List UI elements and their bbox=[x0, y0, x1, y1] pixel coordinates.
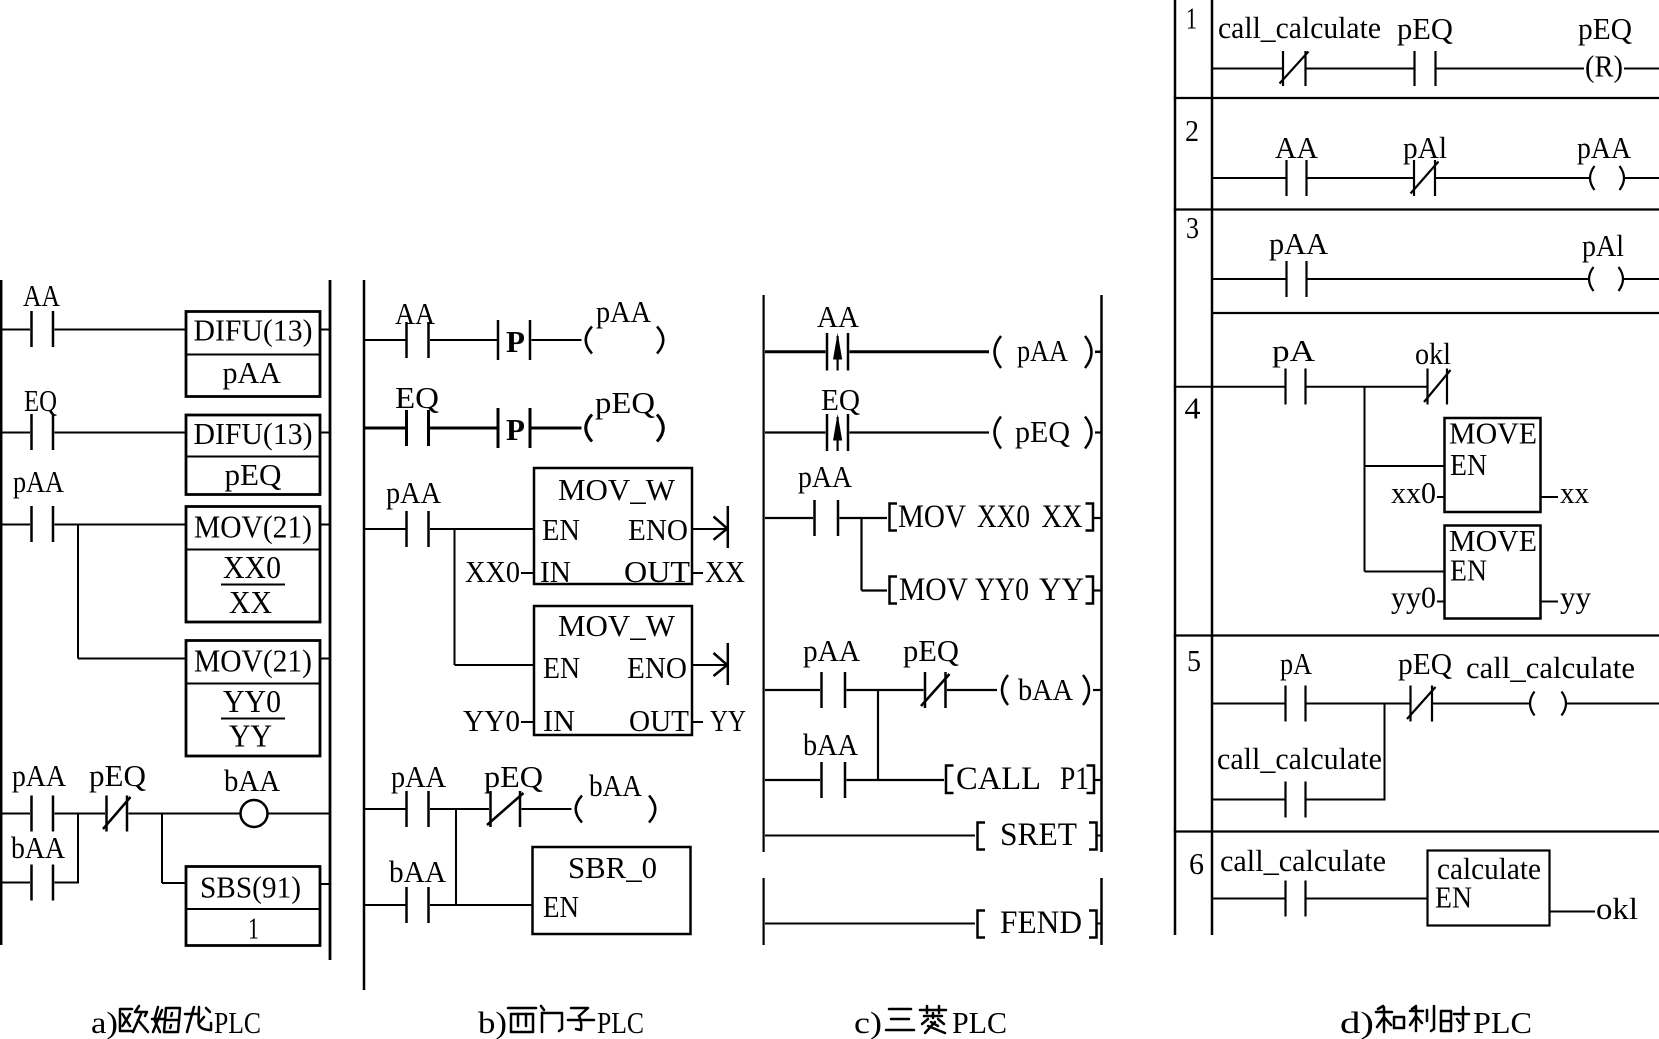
contact bAA (NO) bbox=[407, 887, 429, 923]
box SBR_0 bbox=[533, 847, 691, 934]
contact bAA (NO) bbox=[32, 865, 54, 901]
box calculate bbox=[1428, 851, 1550, 926]
svg-text:EN: EN bbox=[1435, 880, 1472, 915]
svg-text:pA: pA bbox=[1272, 333, 1316, 368]
wire coil pEQ to right rail bbox=[1095, 431, 1102, 433]
svg-text:pAA: pAA bbox=[803, 633, 861, 668]
wire contact pA to contact okl bbox=[1307, 386, 1427, 388]
box MOVE 1 bbox=[1445, 418, 1541, 512]
svg-text:1: 1 bbox=[248, 911, 259, 946]
rung divider 5/6 bbox=[1174, 830, 1659, 832]
wire branch to MOVE box 1 EN bbox=[1365, 465, 1445, 467]
svg-text:ENO: ENO bbox=[627, 650, 687, 685]
svg-text:PLC: PLC bbox=[952, 1005, 1007, 1039]
wire contact pAl to coil pAA bbox=[1436, 177, 1589, 179]
svg-text:YY0: YY0 bbox=[975, 572, 1029, 608]
svg-text:EQ: EQ bbox=[395, 380, 439, 415]
branch vertical pAA/bAA parallel bbox=[455, 809, 457, 905]
contact pAA (NO) bbox=[407, 511, 429, 547]
svg-text:xx: xx bbox=[1560, 475, 1589, 510]
wire rail to contact bAA bbox=[365, 904, 406, 906]
coil call_calculate (parentheses) bbox=[1530, 692, 1566, 716]
contact pEQ (NC) bbox=[921, 672, 950, 708]
caption glyph 利 bbox=[1410, 1006, 1434, 1031]
svg-text:pAA: pAA bbox=[12, 758, 67, 793]
wire contact EQ to P contact bbox=[430, 427, 497, 430]
wire contact AA to coil pAA bbox=[850, 350, 990, 353]
wire rail to SRET instruction bbox=[765, 835, 975, 837]
contact call_calculate (NO) rung 6 bbox=[1286, 881, 1306, 917]
contact pAA (NO) bbox=[407, 791, 429, 827]
wire ENO out rung 3 bbox=[692, 528, 727, 530]
svg-text:xx0: xx0 bbox=[1391, 475, 1436, 510]
contact P (rising edge) rung 1 bbox=[498, 320, 530, 360]
svg-text:okl: okl bbox=[1596, 891, 1638, 926]
wire rail to contact AA bbox=[1, 329, 30, 331]
wire MOV box 2 to right rail bbox=[320, 658, 330, 660]
wire rail to contact pAA bbox=[1, 813, 30, 815]
contact bAA (NO) bbox=[822, 762, 846, 798]
wire rail to contact pAA bbox=[365, 808, 406, 810]
wire xx0 to box bbox=[1437, 496, 1445, 498]
svg-text:pEQ: pEQ bbox=[1015, 414, 1070, 449]
wire SBS box to right rail bbox=[320, 883, 330, 885]
wire rail to contact EQ bbox=[765, 431, 826, 433]
right power rail lower segment (Mitsubishi) bbox=[1100, 878, 1103, 945]
svg-text:pEQ: pEQ bbox=[89, 758, 146, 793]
svg-text:pAA: pAA bbox=[1269, 226, 1329, 261]
left power rail (HollySys) bbox=[1211, 0, 1214, 935]
coil bAA (parentheses) bbox=[576, 796, 656, 823]
wire branch to MOVE box 2 EN bbox=[1365, 571, 1445, 573]
wire cell divider and rail to contact pA bbox=[1174, 386, 1285, 388]
wire rail to contact EQ bbox=[1, 432, 30, 434]
contact okl (NC) bbox=[1424, 369, 1451, 405]
wire DIFU box to right rail bbox=[320, 329, 330, 331]
rung divider 1/2 bbox=[1174, 97, 1659, 99]
svg-text:pEQ: pEQ bbox=[903, 633, 959, 668]
wire coil (R) to right edge bbox=[1624, 68, 1659, 70]
wire contact pAA to MOV box 1 bbox=[55, 524, 187, 526]
svg-text:SBR_0: SBR_0 bbox=[568, 850, 657, 885]
wire rail to contact pAA bbox=[1213, 278, 1286, 280]
svg-text:3: 3 bbox=[1186, 210, 1199, 245]
coil pAA (parentheses) bbox=[1590, 166, 1624, 190]
box MOV_W 2 bbox=[534, 606, 692, 735]
svg-text:c): c) bbox=[854, 1005, 882, 1039]
svg-text:call_calculate: call_calculate bbox=[1218, 10, 1381, 45]
wire contact EQ to DIFU box 2 bbox=[55, 432, 187, 434]
branch vertical pAA/bAA parallel bbox=[877, 690, 879, 780]
contact pEQ (NC) bbox=[103, 796, 131, 832]
svg-text:6: 6 bbox=[1189, 846, 1204, 881]
svg-text:pEQ: pEQ bbox=[1398, 646, 1452, 681]
svg-text:P: P bbox=[506, 324, 525, 359]
svg-text:EN: EN bbox=[542, 512, 580, 547]
contact pA (NO) bbox=[1286, 686, 1306, 722]
wire YY0 to IN bbox=[521, 721, 534, 723]
wire rail to contact call_calculate rung 6 bbox=[1213, 898, 1285, 900]
svg-text:yy0: yy0 bbox=[1391, 580, 1436, 615]
caption glyph 时 bbox=[1441, 1007, 1469, 1031]
contact pEQ (NO) bbox=[1415, 51, 1436, 86]
wire rail to contact call_calculate bbox=[1213, 799, 1285, 801]
wire rail to contact AA bbox=[365, 339, 406, 341]
svg-text:pAA: pAA bbox=[391, 759, 447, 794]
svg-text:EQ: EQ bbox=[821, 382, 860, 417]
box MOV(21) YY0 YY bbox=[186, 641, 320, 757]
wire FEND to right rail bbox=[1098, 923, 1102, 925]
wire contact pEQ to coil bAA bbox=[947, 689, 997, 691]
svg-text:ENO: ENO bbox=[628, 512, 688, 547]
svg-text:yy: yy bbox=[1560, 580, 1592, 615]
svg-text:MOV_W: MOV_W bbox=[558, 472, 676, 507]
wire contact pAA to contact pEQ bbox=[55, 813, 106, 815]
wire P contact to coil pAA bbox=[532, 339, 582, 341]
wire coil pAA to right edge bbox=[1625, 177, 1659, 179]
svg-text:4: 4 bbox=[1185, 391, 1202, 426]
svg-text:YY0: YY0 bbox=[223, 683, 281, 719]
left power rail upper segment (Mitsubishi) bbox=[762, 295, 764, 852]
contact pAA (NO) bbox=[822, 672, 846, 708]
svg-text:MOV: MOV bbox=[899, 572, 968, 608]
svg-text:pA: pA bbox=[1280, 646, 1313, 681]
wire rail to contact pAA bbox=[765, 689, 820, 691]
wire MOV box 1 to right rail bbox=[320, 524, 330, 526]
contact AA (NO) bbox=[32, 311, 54, 347]
svg-text:b): b) bbox=[478, 1005, 507, 1039]
wire MOV to right rail bbox=[1094, 517, 1102, 519]
contact pEQ (NC) bbox=[1407, 686, 1436, 722]
wire P contact to coil pEQ bbox=[532, 427, 582, 430]
right power rail (Omron) bbox=[329, 280, 332, 960]
wire rail to contact pAA bbox=[765, 517, 813, 519]
svg-text:P1: P1 bbox=[1060, 761, 1089, 797]
caption glyph 欧 bbox=[120, 1006, 148, 1032]
caption glyph 姆 bbox=[152, 1007, 180, 1032]
svg-text:PLC: PLC bbox=[214, 1005, 261, 1039]
instruction [MOV XX0 XX] bbox=[890, 499, 1094, 535]
svg-text:XX: XX bbox=[705, 554, 745, 589]
contact call_calculate (NC) bbox=[1280, 51, 1309, 86]
svg-text:EN: EN bbox=[543, 889, 579, 924]
wire box to yy bbox=[1541, 601, 1559, 603]
svg-text:bAA: bAA bbox=[389, 854, 447, 889]
contact pAA (NO) bbox=[32, 506, 54, 542]
instruction [ SRET ] bbox=[978, 817, 1097, 853]
svg-text:CALL: CALL bbox=[956, 761, 1041, 797]
svg-text:XX0: XX0 bbox=[465, 554, 520, 589]
contact pAl (NC) bbox=[1411, 160, 1439, 196]
wire rail to FEND instruction bbox=[765, 923, 975, 925]
svg-text:pAl: pAl bbox=[1582, 228, 1624, 263]
wire coil bAA to right rail bbox=[268, 813, 331, 815]
left power rail (Siemens) bbox=[363, 280, 366, 990]
svg-text:DIFU(13): DIFU(13) bbox=[194, 313, 313, 348]
svg-text:pAA: pAA bbox=[386, 475, 442, 510]
svg-text:pAA: pAA bbox=[1577, 130, 1632, 165]
wire contact AA to contact pAl bbox=[1308, 177, 1414, 179]
contact pAA (NO) bbox=[32, 796, 54, 832]
coil bAA (parentheses) bbox=[1002, 675, 1089, 705]
caption glyph 三 bbox=[886, 1009, 914, 1030]
wire contact pEQ to coil (R) bbox=[1437, 68, 1585, 70]
contact call_calculate (NO) bbox=[1286, 782, 1306, 818]
wire contact pAA to coil pAl bbox=[1308, 278, 1589, 280]
right power rail upper segment (Mitsubishi) bbox=[1100, 295, 1103, 852]
caption glyph 和 bbox=[1376, 1006, 1404, 1032]
svg-text:pEQ: pEQ bbox=[225, 457, 282, 492]
wire contact pAA to contact pEQ bbox=[430, 808, 489, 810]
wire rail to contact bAA bbox=[1, 882, 30, 884]
wire rail to contact EQ bbox=[365, 427, 406, 430]
left power rail lower segment (Mitsubishi) bbox=[762, 878, 764, 945]
rung number column border bbox=[1174, 0, 1177, 935]
svg-text:call_calculate: call_calculate bbox=[1466, 650, 1635, 685]
box MOV(21) XX0 XX bbox=[186, 507, 320, 623]
coil pEQ (parentheses) bbox=[586, 415, 664, 442]
wire contact bAA to CALL instruction bbox=[847, 779, 945, 781]
contact pEQ (NC) bbox=[487, 791, 524, 827]
wire rail to contact call_calculate bbox=[1213, 68, 1282, 70]
svg-text:pAA: pAA bbox=[798, 459, 853, 494]
instruction [MOV YY0 YY] bbox=[890, 572, 1094, 608]
contact P (rising edge) rung 2 bbox=[498, 408, 530, 448]
svg-text:AA: AA bbox=[817, 299, 860, 334]
svg-text:XX0: XX0 bbox=[223, 549, 281, 585]
wire box to xx bbox=[1541, 496, 1559, 498]
svg-text:pEQ: pEQ bbox=[484, 759, 543, 794]
svg-text:YY: YY bbox=[710, 703, 746, 738]
contact EQ (rising edge) bbox=[827, 414, 848, 451]
wire contact pAA to contact pEQ bbox=[847, 689, 924, 691]
svg-text:MOV(21): MOV(21) bbox=[194, 509, 312, 545]
coil pEQ (parentheses) bbox=[995, 417, 1092, 449]
branch vertical to MOV YY0 bbox=[860, 518, 862, 591]
wire ENO out rung 3b bbox=[692, 664, 727, 666]
svg-text:pAl: pAl bbox=[1403, 130, 1447, 165]
coil pAl (parentheses) bbox=[1589, 267, 1623, 291]
svg-text:YY: YY bbox=[1039, 572, 1084, 608]
caption glyph 菱 bbox=[920, 1006, 946, 1033]
svg-text:EQ: EQ bbox=[24, 383, 57, 418]
svg-text:MOV(21): MOV(21) bbox=[194, 643, 312, 679]
caption glyph 龙 bbox=[185, 1007, 211, 1032]
wire contact call_calculate to contact pEQ bbox=[1307, 68, 1414, 70]
contact AA (NO) bbox=[407, 322, 429, 358]
contact pAA (NO) bbox=[815, 500, 839, 536]
box MOVE 2 bbox=[1445, 526, 1541, 619]
wire rail to contact AA bbox=[765, 350, 826, 353]
wire contact pA to contact pEQ bbox=[1307, 703, 1410, 705]
svg-text:a): a) bbox=[91, 1005, 118, 1039]
svg-text:AA: AA bbox=[23, 278, 61, 313]
svg-text:pAA: pAA bbox=[13, 464, 65, 499]
coil pAA (parentheses) bbox=[995, 336, 1092, 368]
svg-text:PLC: PLC bbox=[597, 1005, 644, 1039]
svg-text:pAA: pAA bbox=[223, 355, 282, 390]
wire rail to contact pAA bbox=[1, 524, 30, 526]
svg-text:XX: XX bbox=[1042, 499, 1083, 535]
wire contact call_calculate to calculate box EN bbox=[1307, 898, 1428, 900]
wire contact call_calculate to branch bbox=[1307, 799, 1386, 801]
svg-text:XX: XX bbox=[229, 584, 272, 620]
svg-text:MOV_W: MOV_W bbox=[558, 608, 676, 643]
wire XX0 to IN bbox=[521, 572, 534, 574]
wire yy0 to box bbox=[1437, 601, 1445, 603]
svg-text:EN: EN bbox=[543, 650, 580, 685]
svg-text:bAA: bAA bbox=[11, 830, 66, 865]
branch vertical to MOV_W box 2 bbox=[454, 529, 456, 665]
svg-text:EN: EN bbox=[1450, 553, 1487, 588]
wire contact bAA to SBR box EN bbox=[430, 904, 533, 906]
svg-text:PLC: PLC bbox=[1473, 1005, 1532, 1039]
contact AA (NO) bbox=[1287, 160, 1307, 196]
instruction [ FEND ] bbox=[978, 905, 1097, 941]
svg-text:pAA: pAA bbox=[596, 294, 652, 329]
svg-text:FEND: FEND bbox=[1000, 905, 1082, 941]
svg-text:MOV: MOV bbox=[898, 499, 966, 535]
instruction [CALL P1] bbox=[946, 761, 1094, 797]
svg-text:1: 1 bbox=[1186, 1, 1197, 36]
ENO continuation arrow rung 3 bbox=[714, 506, 728, 548]
wire contact pAA to MOV instruction bbox=[840, 517, 888, 519]
box DIFU(13) pAA bbox=[186, 312, 320, 397]
box SBS(91) 1 bbox=[186, 867, 320, 946]
svg-text:pAA: pAA bbox=[1017, 333, 1069, 368]
caption glyph 子 bbox=[568, 1008, 594, 1030]
svg-text:bAA: bAA bbox=[589, 768, 643, 803]
svg-text:YY: YY bbox=[229, 718, 272, 754]
svg-text:pEQ: pEQ bbox=[1397, 11, 1453, 46]
rung divider 3/4 drawing area bbox=[1212, 312, 1659, 314]
contact EQ (NO) bbox=[407, 410, 429, 446]
svg-text:call_calculate: call_calculate bbox=[1220, 843, 1386, 878]
wire contact bAA to branch bbox=[55, 882, 80, 884]
svg-text:YY0: YY0 bbox=[463, 703, 520, 738]
wire branch to MOV box 2 bbox=[78, 658, 186, 660]
fraction bar bbox=[221, 584, 285, 586]
wire coil call_calculate to right edge bbox=[1567, 703, 1659, 705]
svg-text:call_calculate: call_calculate bbox=[1217, 741, 1382, 776]
svg-text:IN: IN bbox=[543, 703, 575, 738]
branch vertical pAA/bAA parallel bbox=[77, 814, 79, 883]
wire OUT to YY bbox=[692, 721, 703, 723]
svg-text:okl: okl bbox=[1415, 336, 1451, 371]
svg-text:SBS(91): SBS(91) bbox=[200, 870, 301, 905]
svg-text:EN: EN bbox=[1450, 447, 1487, 482]
fraction bar bbox=[221, 718, 285, 720]
wire CALL to right rail bbox=[1095, 779, 1102, 781]
wire rail to contact pAA bbox=[365, 528, 406, 530]
svg-text:pEQ: pEQ bbox=[1578, 11, 1632, 46]
wire contact pEQ to coil bAA bbox=[522, 808, 572, 810]
wire DIFU box 2 to right rail bbox=[320, 432, 330, 434]
coil bAA (circle) bbox=[241, 800, 268, 827]
svg-text:bAA: bAA bbox=[1018, 672, 1074, 707]
svg-text:SRET: SRET bbox=[1000, 817, 1077, 853]
wire SRET to right rail bbox=[1098, 835, 1102, 837]
wire contact AA to P contact bbox=[430, 339, 497, 341]
wire MOV YY0 to right rail bbox=[1094, 589, 1102, 591]
svg-text:IN: IN bbox=[540, 554, 571, 589]
svg-text:2: 2 bbox=[1185, 113, 1199, 148]
caption glyph 门 bbox=[541, 1006, 562, 1032]
left power rail (Omron) bbox=[0, 280, 2, 945]
contact pA (NO) bbox=[1286, 369, 1306, 405]
wire rail to contact pA bbox=[1213, 703, 1285, 705]
wire coil pAl to right edge bbox=[1624, 278, 1659, 280]
svg-text:XX0: XX0 bbox=[977, 499, 1030, 535]
rung divider 2/3 bbox=[1174, 208, 1659, 210]
box DIFU(13) pEQ bbox=[186, 415, 320, 495]
svg-text:bAA: bAA bbox=[803, 727, 859, 762]
branch vertical to MOVE boxes bbox=[1364, 387, 1366, 572]
box MOV_W 1 bbox=[534, 468, 692, 584]
branch vertical to MOV box 2 bbox=[77, 525, 79, 659]
svg-text:d): d) bbox=[1340, 1005, 1374, 1039]
svg-text:bAA: bAA bbox=[224, 763, 281, 798]
ENO continuation arrow rung 3b bbox=[714, 643, 728, 685]
wire OUT to XX bbox=[692, 572, 703, 574]
svg-text:P: P bbox=[506, 412, 525, 447]
wire contact AA to DIFU box bbox=[55, 329, 187, 331]
wire contact EQ to coil pEQ bbox=[850, 431, 990, 433]
wire branch to SBS box bbox=[162, 882, 186, 884]
wire branch to MOV YY0 bbox=[862, 589, 888, 591]
caption glyph 西 bbox=[508, 1008, 536, 1032]
branch vertical to SBS box bbox=[161, 814, 163, 884]
wire coil pAA to right rail bbox=[1095, 351, 1102, 354]
svg-text:(R): (R) bbox=[1585, 49, 1623, 84]
wire coil bAA to right rail bbox=[1093, 689, 1102, 691]
branch vertical pA/call_calculate parallel bbox=[1384, 704, 1386, 800]
wire calculate box to okl bbox=[1550, 911, 1596, 913]
coil pAA (parentheses) bbox=[586, 327, 664, 354]
svg-text:DIFU(13): DIFU(13) bbox=[194, 416, 313, 451]
svg-text:AA: AA bbox=[1275, 130, 1319, 165]
svg-text:OUT: OUT bbox=[624, 554, 690, 589]
wire contact pAA to MOV_W box 1 EN bbox=[430, 528, 534, 530]
svg-text:5: 5 bbox=[1187, 643, 1201, 678]
svg-text:pEQ: pEQ bbox=[595, 385, 655, 420]
contact EQ (NO) bbox=[32, 414, 54, 450]
wire rail to contact AA bbox=[1213, 177, 1286, 179]
wire contact pEQ to coil call_calculate bbox=[1433, 703, 1530, 705]
svg-text:MOVE: MOVE bbox=[1449, 416, 1537, 451]
wire branch to MOV_W box 2 EN bbox=[455, 664, 535, 666]
contact AA (rising edge) bbox=[827, 333, 848, 371]
rung divider 4/5 bbox=[1174, 634, 1659, 636]
svg-text:OUT: OUT bbox=[629, 703, 689, 738]
wire contact pEQ to coil bAA bbox=[129, 813, 241, 815]
contact pAA (NO) bbox=[1287, 261, 1307, 297]
wire rail to contact bAA bbox=[765, 779, 820, 781]
